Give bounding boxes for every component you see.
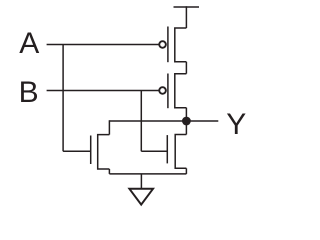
wire: branch B down to M4 gate (140, 91, 142, 152)
transistor M1 (PMOS, input A) (159, 27, 186, 63)
wire: M3 source down to ground rail (108, 169, 110, 174)
ground (129, 174, 153, 205)
svg-text:Y: Y (226, 108, 246, 141)
wire: output line Y (109, 120, 218, 122)
wire: branch A down to M3 gate (62, 45, 64, 152)
wire: M4 source down to ground rail (185, 168, 187, 174)
wire: input A (47, 44, 160, 46)
wire: node Y down to NMOS M4 drain (185, 121, 187, 135)
svg-text:A: A (19, 27, 39, 60)
wire: M1 drain to M2 source (185, 62, 187, 74)
transistor M2 (PMOS, input B) (159, 74, 186, 109)
wire: VDD stub to PMOS M1 source (185, 6, 187, 28)
wire: output line to NMOS M3 drain (108, 120, 110, 134)
transistor M3 (NMOS, input A) (91, 135, 110, 169)
transistor M4 (NMOS, input B) (167, 135, 186, 169)
svg-text:B: B (19, 76, 39, 109)
wire: M2 drain down to output node (185, 108, 187, 121)
wire: ground rail (109, 173, 186, 175)
VDD rail (174, 6, 200, 8)
node Y (junction dot) (182, 117, 191, 126)
wire: B branch to M4 gate bar (141, 150, 167, 152)
wire: input B (47, 90, 160, 92)
wire: A branch to M3 gate bar (63, 150, 91, 152)
